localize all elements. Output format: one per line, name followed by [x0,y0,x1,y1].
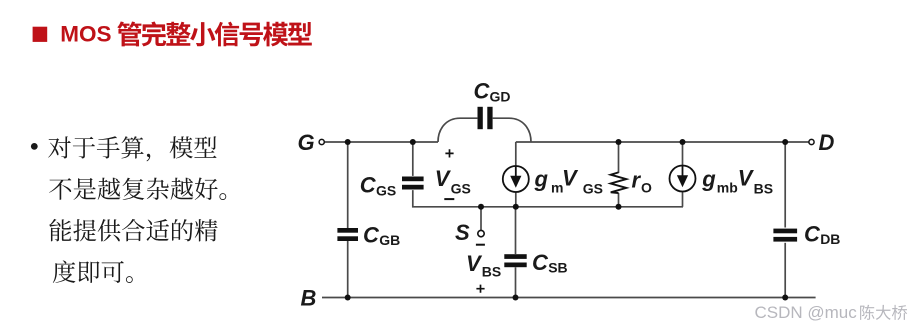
svg-text:mb: mb [717,179,738,195]
wire B rail [322,297,816,299]
wire left branch lower (C_GB bottom) [347,241,349,298]
node S terminal [478,230,484,236]
wire C_SB branch bottom [515,267,517,297]
node D/gmb junction [680,139,686,145]
body line 1 对于手算，模型 [48,136,216,161]
wire gm source bottom [515,192,517,207]
wire D rail [516,141,809,143]
svg-text:G: G [298,130,315,155]
svg-text:O: O [641,180,652,196]
svg-text:g: g [534,166,549,191]
svg-text:MOS: MOS [60,21,111,46]
svg-text:C: C [363,222,380,247]
capacitor C_SB [504,254,526,259]
node B/C_GB junction [345,295,351,301]
svg-text:g: g [701,166,716,191]
wire rO top [618,142,620,173]
svg-text:CSDN @muc: CSDN @muc [755,303,858,322]
capacitor C_DB [773,229,797,234]
svg-text:GS: GS [376,182,396,198]
wire rO bottom [618,193,620,207]
node G/C_GS junction [410,139,416,145]
wire C_GD hump left [438,118,477,142]
node S/rO junction [616,204,622,210]
current source gmb*VBS (U2) [670,166,696,192]
svg-text:BS: BS [754,181,773,197]
svg-text:SB: SB [548,260,567,276]
node D/rO junction [616,139,622,145]
current source gm*VGS (U1) [503,166,529,192]
node B/C_SB junction [513,295,519,301]
svg-text:DB: DB [820,231,840,247]
svg-text:C: C [532,250,549,275]
title text 管完整小信号模型 [117,21,312,46]
resistor rO [611,172,627,193]
svg-text:V: V [435,166,452,191]
wire gm source top [515,142,517,166]
wire left branch upper (C_GB top) [347,142,349,228]
wire C_GS branch bottom + S rail [413,190,683,207]
svg-text:D: D [819,130,835,155]
wire C_DB branch bottom [784,243,786,298]
title bullet square [33,27,48,42]
svg-text:V: V [738,166,755,191]
watermark 陈大桥 [860,305,907,320]
wire C_GD hump right [493,118,531,142]
capacitor C_GB [337,228,358,233]
body line 3 能提供合适的精 [49,219,217,242]
node B/C_DB junction [782,295,788,301]
svg-text:S: S [455,220,470,245]
node G terminal [319,139,324,144]
svg-text:r: r [632,168,642,193]
body line 2 不是越复杂越好。 [49,178,226,200]
body bullet [31,143,38,150]
svg-text:B: B [301,285,317,310]
svg-text:C: C [804,222,821,247]
svg-text:GB: GB [379,232,400,248]
node G/C_GB junction [345,139,351,145]
wire gmb source bottom [682,192,684,207]
svg-text:BS: BS [482,264,501,280]
node D terminal [809,139,814,144]
node S/gm junction [513,204,519,210]
wire C_SB branch top [515,207,517,254]
svg-text:V: V [466,251,483,276]
wire S terminal stub [480,207,482,230]
wire G rail [325,141,438,143]
svg-text:V: V [562,166,579,191]
svg-text:GS: GS [451,181,471,197]
capacitor C_GS [402,177,424,182]
wire gmb source top [682,142,684,166]
svg-text:C: C [474,79,491,104]
svg-text:GD: GD [490,88,511,104]
capacitor C_GD [478,107,483,129]
wire C_DB branch top [784,142,786,228]
node D/C_DB junction [782,139,788,145]
body line 4 度即可。 [53,260,133,283]
wire C_GS branch top [412,142,414,176]
svg-text:GS: GS [583,181,603,197]
svg-text:C: C [360,173,377,198]
node S terminal junction [478,204,484,210]
